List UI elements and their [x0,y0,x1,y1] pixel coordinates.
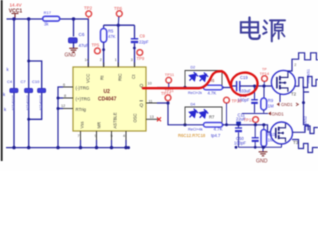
svg-text:Rt: Rt [100,75,105,80]
svg-text:100uF25V: 100uF25V [25,95,29,111]
MOSFET T2 [271,70,295,94]
wire: center tap staircase [295,77,318,88]
diode bridge over R7 [185,107,222,125]
svg-text:OSC: OSC [133,113,138,122]
diode D5 [197,108,209,120]
svg-text:TP14: TP14 [260,71,270,76]
page background [0,0,318,171]
svg-text:ASTBLE: ASTBLE [113,112,118,128]
no-connect X marker [157,117,161,121]
svg-text:TP5: TP5 [92,43,100,48]
bottom rail to ground [239,146,282,148]
ground symbol GND bottom right [259,152,268,156]
net label GND1 with arrow [268,112,271,116]
svg-text:Vss: Vss [80,122,85,129]
power bar symbol under VCC1 [12,14,19,20]
svg-text:14.4V: 14.4V [10,3,23,8]
svg-text:4.7K: 4.7K [214,126,223,131]
svg-text:R9: R9 [268,98,274,103]
svg-text:47uF: 47uF [79,43,89,48]
wires: IC left pins 6 8 12 common [63,87,73,109]
wire: C6 branch [73,19,75,37]
svg-text:7: 7 [78,134,80,138]
wire: middle column to IC [117,25,119,67]
svg-text:TP2: TP2 [84,6,93,11]
svg-text:GND1: GND1 [272,112,285,117]
svg-text:14: 14 [85,58,89,62]
junction node on VCC rail [12,17,15,20]
svg-text:ReCl+4k: ReCl+4k [188,127,203,131]
svg-text:(+)TRG: (+)TRG [76,97,91,102]
wire: VCC rail top [7,18,89,20]
wire: T3 drain staircase [292,126,318,134]
电 [250,18,260,39]
svg-text:R17: R17 [44,10,52,15]
red annotation stroke along Q net [143,71,231,88]
wire: T2 source to GND1 [279,94,281,102]
svg-text:6: 6 [63,83,65,87]
svg-text:R5: R5 [108,29,114,34]
svg-text:47K: 47K [108,34,116,39]
svg-text:U2: U2 [104,89,111,95]
svg-text:C10: C10 [32,79,40,84]
ground symbol GND below C6 [69,48,78,52]
IC top pin dark segments [88,63,134,68]
resistor R6 [204,85,223,90]
red annotation ellipse [230,71,260,97]
svg-text:1: 1 [115,58,117,62]
capacitor C6 [68,38,77,43]
oscillator rail above IC [104,24,135,26]
svg-text:1M: 1M [268,104,274,109]
svg-text:R7: R7 [209,115,215,120]
test point TP2 top-left [86,11,92,17]
svg-text:ReCl+2k: ReCl+2k [188,91,202,95]
svg-text:R6C12.R7C18: R6C12.R7C18 [178,133,206,138]
svg-text:100uF25V: 100uF25V [38,95,42,111]
svg-text:tp4.7: tp4.7 [211,133,221,138]
wire: T3 source to rail [281,144,283,147]
svg-text:D2: D2 [191,66,196,70]
wires: IC bottom pins to ground bus [81,131,127,140]
test point TP12 [165,95,171,101]
svg-text:13: 13 [150,115,154,119]
svg-text:C6: C6 [79,32,85,37]
wire: T2 drain staircase to edge [288,53,318,73]
svg-text:10: 10 [148,81,152,85]
op IC U2 CD4047 body [73,67,146,131]
svg-text:TP10: TP10 [232,98,243,103]
svg-text:D4: D4 [191,103,196,107]
svg-text:TP11: TP11 [165,72,175,77]
junction node on VCC rail [27,17,30,20]
svg-text:VCC: VCC [86,74,91,83]
svg-text:TP9: TP9 [137,56,145,61]
svg-text:GND: GND [65,53,77,59]
svg-text:MR: MR [97,122,102,129]
net port (blue square) [236,122,241,126]
svg-text:GND1: GND1 [281,102,293,107]
svg-text:8: 8 [64,94,66,98]
svg-text:22pF: 22pF [139,40,149,45]
svg-text:TP6: TP6 [114,6,123,11]
svg-text:RTrig: RTrig [76,107,87,112]
svg-text:TRANS2: TRANS2 [304,116,308,131]
wire: Qbar output net (pin 11) [146,102,157,104]
wire: right rail with junction [304,86,310,131]
svg-text:4: 4 [123,134,125,138]
svg-text:T2: T2 [291,92,297,97]
title 电源 (drawn strokes) [241,18,285,42]
test point TP14 [262,76,268,82]
svg-text:TP12: TP12 [161,91,172,96]
svg-text:CD4047: CD4047 [98,97,117,103]
wire: Q output net (pin 10) [146,87,157,89]
svg-text:C4: C4 [7,79,13,84]
resistor R9 [263,86,265,98]
svg-text:GND: GND [256,159,268,165]
resistor R10 [263,125,265,130]
pin 13 no-connect stub [146,118,159,120]
left black border line [1,0,3,161]
svg-text:4.7K: 4.7K [208,91,217,96]
svg-text:3: 3 [131,58,133,62]
svg-text:100uF25V: 100uF25V [11,95,15,111]
svg-text:100pF: 100pF [234,140,246,145]
test point TP9 [137,50,143,56]
源 [264,21,267,24]
svg-text:2: 2 [294,63,296,67]
svg-text:(-)TRG: (-)TRG [76,86,90,91]
svg-text:C7: C7 [21,79,27,84]
net rail GND1 under gate [242,113,268,115]
ground bus wire bottom [6,147,129,149]
diode bridge over R6 [185,71,222,88]
test point TP10 [224,97,230,103]
resistor R5 [103,25,105,28]
MOSFET T3 [271,122,293,144]
capacitor C9 [134,25,136,38]
test point TP13 [253,117,259,123]
test point TP6 above IC [116,11,122,17]
test point TP5 [95,48,101,54]
wire: VCC down to IC pin14 [87,19,89,67]
resistor R17 [43,16,60,21]
svg-text:C9: C9 [140,33,146,38]
svg-text:Ct: Ct [131,74,136,79]
svg-text:2: 2 [100,58,102,62]
wire: left cap column 2 [28,19,30,88]
wire: left cap column 1 [13,19,15,88]
diode D3 [197,71,209,83]
junction node C6 tap [72,17,75,20]
wire: C10 branch jog top [29,61,42,88]
diode D2 [187,71,199,83]
diode D4 [187,108,199,120]
svg-text:TP: TP [262,68,267,72]
svg-text:Q: Q [140,103,144,109]
capacitor C19 (circled) [231,86,237,88]
wire: lower staircase [292,140,318,153]
svg-text:22uF: 22uF [236,117,246,122]
svg-text:RtC: RtC [118,73,123,81]
test point TP11 on Q net [166,77,172,83]
svg-text:C19: C19 [240,75,248,80]
resistor R7 [204,123,223,128]
svg-text:12: 12 [61,104,65,108]
svg-text:TRANS1: TRANS1 [307,69,311,84]
